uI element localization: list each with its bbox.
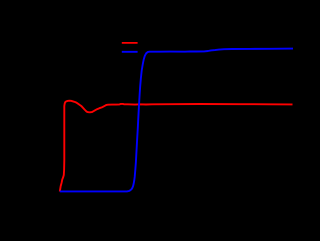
blue curve (60, 49, 293, 192)
legend red sample (122, 42, 138, 44)
red curve (60, 101, 293, 192)
legend blue sample (122, 51, 138, 53)
